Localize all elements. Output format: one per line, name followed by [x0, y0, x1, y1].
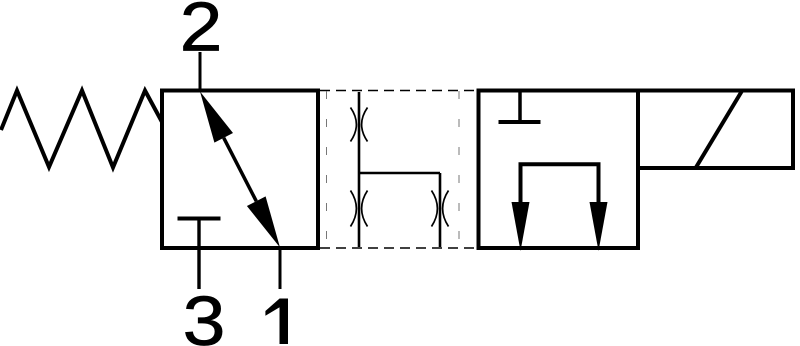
solenoid coil box [638, 91, 793, 169]
exhaust bridge left arrowhead [512, 202, 530, 251]
svg-text:3: 3 [183, 281, 226, 346]
blocked port T bar in right box [499, 120, 541, 124]
transition position dashed bottom edge [320, 247, 477, 249]
exhaust bridge [521, 164, 599, 205]
blocked port 3 symbol (T bar) [178, 217, 221, 221]
transition flow line B [439, 173, 442, 247]
port 1 label flag [265, 299, 279, 316]
throttle lower on line B [432, 191, 449, 227]
port 2 stub [199, 52, 202, 92]
transition position dashed top edge [320, 90, 477, 92]
throttle lower on line A [351, 191, 368, 227]
flow path arrow 2-1 shaft [224, 138, 257, 201]
transition position dashed left edge [326, 91, 328, 248]
port 3 label [183, 281, 226, 346]
port 3 line [197, 219, 200, 290]
throttle upper on line A [351, 108, 368, 142]
port 2 label [180, 0, 223, 66]
valve body position 1 (left box) [162, 91, 318, 249]
flow path arrow 2-1 top arrowhead [200, 92, 233, 143]
spring return actuator [1, 91, 162, 168]
blocked port stub in right box [518, 92, 522, 122]
transition flow line A [358, 92, 361, 247]
flow path arrow 2-1 bottom arrowhead [247, 196, 280, 247]
port 1 label stem [280, 299, 289, 345]
exhaust bridge right arrowhead [590, 202, 608, 251]
port 1 stub [279, 247, 282, 289]
transition position dashed right edge [458, 91, 460, 248]
solenoid diagonal [695, 90, 743, 169]
transition connector line [359, 172, 440, 175]
valve body position 2 (right box) [479, 91, 639, 249]
